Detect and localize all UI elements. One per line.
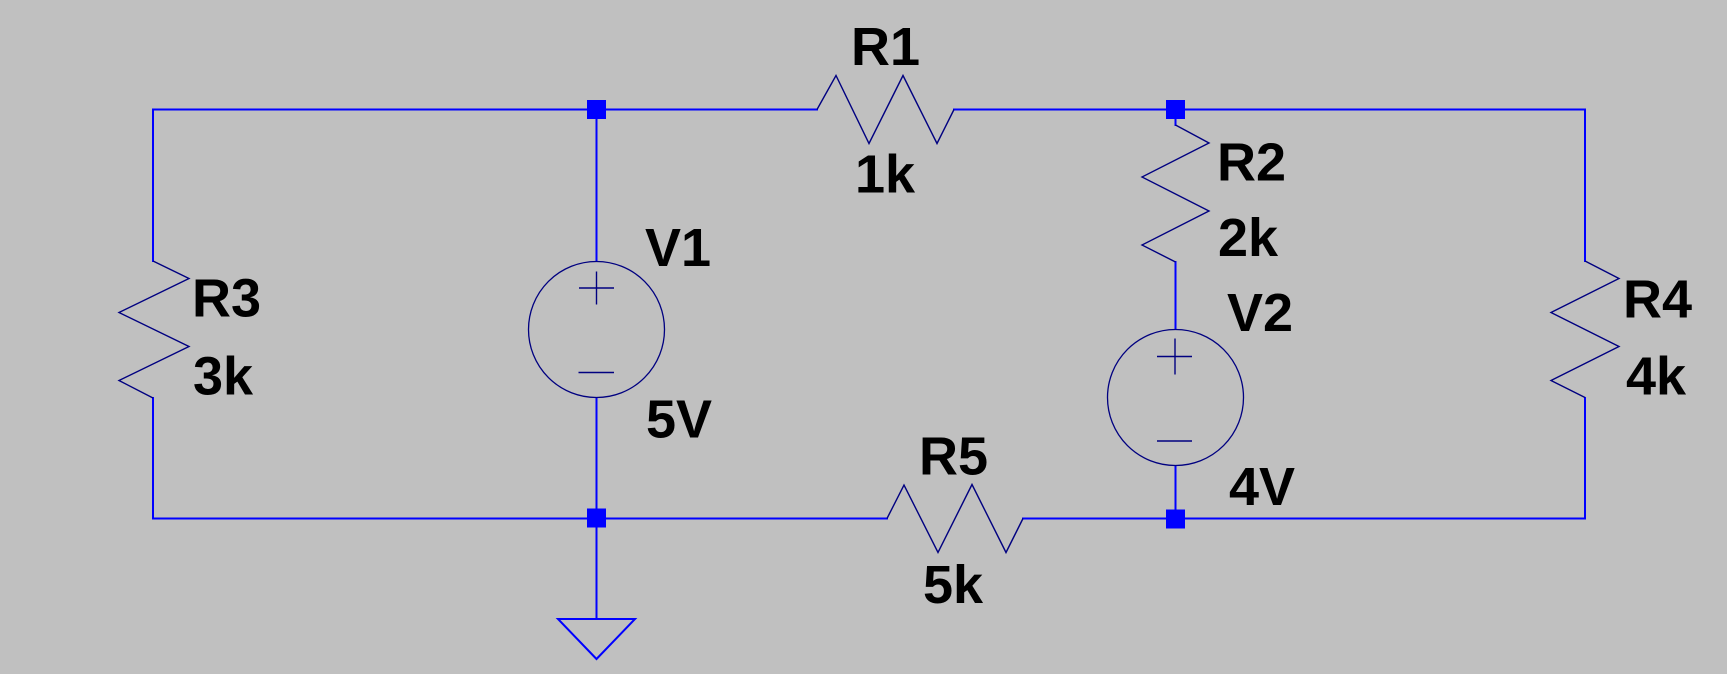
wire R2 top stub (1175, 110, 1177, 127)
svg-text:R3: R3 (192, 269, 261, 329)
voltage source V2 (1108, 330, 1244, 466)
wire bottom-right segment (1022, 518, 1586, 520)
wire right-bottom segment (1584, 397, 1586, 520)
svg-text:V1: V1 (645, 218, 711, 278)
svg-text:1k: 1k (855, 145, 916, 205)
node junction top-left (587, 100, 606, 119)
svg-text:4k: 4k (1626, 347, 1687, 407)
resistor R2 (1142, 125, 1209, 262)
wire V1 branch bottom (596, 397, 598, 519)
svg-text:4V: 4V (1229, 457, 1295, 517)
svg-text:V2: V2 (1227, 283, 1293, 343)
wire bottom-left segment (152, 518, 888, 520)
svg-text:R5: R5 (919, 427, 988, 487)
node junction top-right (1166, 100, 1185, 119)
svg-text:3k: 3k (193, 347, 254, 407)
V1 minus sign (579, 372, 615, 374)
wire right-top segment (1584, 109, 1586, 263)
svg-text:R1: R1 (851, 17, 920, 77)
V2 plus sign (1157, 356, 1192, 358)
ground (558, 619, 635, 659)
node junction bottom-left (587, 509, 606, 528)
wire top-left segment (152, 109, 818, 111)
resistor R4 (1551, 261, 1619, 398)
svg-text:R2: R2 (1217, 133, 1286, 193)
wire left-bottom segment (152, 397, 154, 520)
voltage source V1 (529, 262, 665, 398)
svg-text:5V: 5V (646, 390, 712, 450)
wire R2 to V2 (1175, 261, 1177, 330)
resistor R1 (817, 76, 954, 144)
wire V1 branch top (596, 110, 598, 263)
wire V2 to bottom node (1175, 465, 1177, 520)
wire left-top segment (152, 109, 154, 263)
resistor R5 (887, 485, 1023, 553)
svg-text:R4: R4 (1623, 270, 1692, 330)
svg-text:2k: 2k (1218, 208, 1279, 268)
V2 minus sign (1157, 440, 1192, 442)
svg-text:5k: 5k (923, 555, 984, 615)
resistor R3 (119, 261, 189, 398)
V1 plus sign (579, 287, 614, 289)
wire top-right segment (953, 109, 1586, 111)
wire ground stem (596, 519, 598, 620)
node junction bottom-right (1166, 510, 1185, 529)
